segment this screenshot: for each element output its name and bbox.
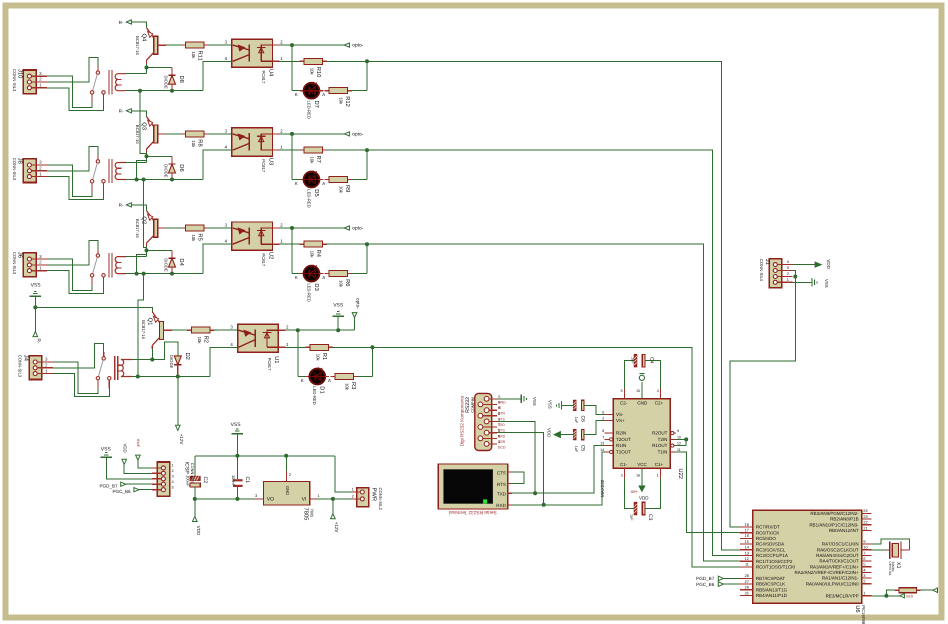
power terminal VDD (regulator output) xyxy=(193,499,201,536)
wire 7805 GND pin to rail xyxy=(285,456,287,472)
diode D6 DIODE (flyback) xyxy=(163,156,185,179)
node output junction / wire to R3 xyxy=(332,345,374,376)
svg-text:15: 15 xyxy=(745,540,749,544)
svg-text:TXD: TXD xyxy=(498,423,506,427)
svg-text:22: 22 xyxy=(863,521,867,525)
svg-text:RB5/AN13/T1G: RB5/AN13/T1G xyxy=(756,587,788,592)
svg-text:1uF: 1uF xyxy=(631,357,635,364)
svg-text:PGD_B7: PGD_B7 xyxy=(696,576,715,581)
svg-text:RB0/AN12/INT: RB0/AN12/INT xyxy=(829,528,859,533)
power terminal VDD (MCLR pullup) xyxy=(933,588,938,593)
svg-text:VDD: VDD xyxy=(196,526,201,536)
crystal X1 xyxy=(872,539,910,576)
power terminal +12V xyxy=(176,425,184,444)
node T2IN/R1OUT junction xyxy=(676,437,688,445)
connector J6 CONN-SIL3 xyxy=(12,252,47,277)
wire U4 pin1 to R10 xyxy=(273,56,300,62)
svg-text:23: 23 xyxy=(863,515,867,519)
svg-text:25: 25 xyxy=(745,591,749,595)
voltage regulator U7 7805 xyxy=(255,471,320,520)
svg-text:DIODE: DIODE xyxy=(163,76,168,89)
svg-text:PIC16F886: PIC16F886 xyxy=(861,605,866,624)
wire U3 pin2 to opto- net xyxy=(273,128,345,136)
svg-text:4: 4 xyxy=(787,260,789,264)
svg-text:10k: 10k xyxy=(310,251,315,259)
capacitor C3 1uF xyxy=(624,478,660,521)
node rail junction at flyback diode xyxy=(170,89,174,93)
svg-text:CONN-SIL3: CONN-SIL3 xyxy=(18,355,23,378)
power symbol (MAX232 GND pin15) xyxy=(639,373,644,398)
svg-text:3: 3 xyxy=(621,473,623,477)
svg-text:mclr: mclr xyxy=(906,593,914,598)
svg-text:2: 2 xyxy=(172,469,174,473)
svg-text:RC2/CCP1/P1A: RC2/CCP1/P1A xyxy=(756,553,788,558)
svg-text:PC817: PC817 xyxy=(261,159,266,172)
svg-text:Q4: Q4 xyxy=(141,34,148,43)
svg-text:100uF: 100uF xyxy=(186,475,191,487)
svg-text:GND: GND xyxy=(498,400,506,404)
svg-text:A: A xyxy=(322,92,325,97)
svg-text:RA2/AN2/VREF-/CVREF/C2IN+: RA2/AN2/VREF-/CVREF/C2IN+ xyxy=(794,570,859,575)
svg-text:28: 28 xyxy=(745,574,749,578)
svg-text:24: 24 xyxy=(863,509,867,513)
svg-text:VS+: VS+ xyxy=(616,418,625,423)
wire Q2 collector to R5 xyxy=(166,227,181,229)
svg-text:RA5/AN4/SS/C2OUT: RA5/AN4/SS/C2OUT xyxy=(816,553,859,558)
svg-text:TXD: TXD xyxy=(497,491,507,496)
node MCLR junction xyxy=(872,594,889,598)
svg-text:5: 5 xyxy=(172,485,174,489)
svg-text:LED-RED: LED-RED xyxy=(306,189,311,207)
svg-text:BC817-16: BC817-16 xyxy=(141,320,146,340)
svg-text:10k: 10k xyxy=(344,383,349,391)
wire relay bottom rail xyxy=(126,90,203,92)
svg-text:K: K xyxy=(295,181,298,186)
svg-text:VSS: VSS xyxy=(31,282,42,288)
optocoupler U3 PC817 xyxy=(232,128,274,173)
svg-text:PC817: PC817 xyxy=(261,253,266,266)
wire U4 pin4 to relay rail xyxy=(203,56,232,91)
wire Q3 collector to R8 xyxy=(166,133,181,135)
svg-text:2: 2 xyxy=(863,580,865,584)
svg-text:1: 1 xyxy=(787,278,789,282)
power symbol VSS (relay driver common) xyxy=(30,282,42,307)
svg-text:6: 6 xyxy=(863,557,865,561)
svg-text:VO: VO xyxy=(267,497,274,503)
wire TXD net to MAX232 R1IN xyxy=(508,446,605,496)
node C2 bottom junction xyxy=(193,497,197,501)
svg-text:C2+: C2+ xyxy=(655,401,664,406)
relay coil RL3 xyxy=(109,159,126,183)
svg-text:DIODE: DIODE xyxy=(163,164,168,177)
svg-text:18: 18 xyxy=(745,523,749,527)
wire coil top lead xyxy=(126,73,147,75)
svg-text:3: 3 xyxy=(255,493,257,498)
wire J10 pin3 to switch contact xyxy=(47,76,92,107)
svg-text:D7: D7 xyxy=(313,101,319,108)
resistor R10 10k xyxy=(300,58,328,77)
wire U1 pin2 to opto- net xyxy=(278,325,354,333)
resistor R3 10k xyxy=(330,374,358,391)
svg-text:opto-: opto- xyxy=(352,226,363,232)
svg-text:10k: 10k xyxy=(339,97,344,105)
svg-text:5: 5 xyxy=(621,389,623,393)
svg-text:X1: X1 xyxy=(895,562,901,569)
transistor Q1 BC817-16 xyxy=(141,312,172,349)
svg-text:5: 5 xyxy=(498,395,500,399)
svg-text:1: 1 xyxy=(317,493,319,498)
node output junction / wire to R6 xyxy=(327,242,370,273)
svg-text:VDD: VDD xyxy=(546,428,551,437)
svg-text:7: 7 xyxy=(863,551,865,555)
node VSS junction xyxy=(33,305,37,309)
svg-text:D5: D5 xyxy=(313,189,319,196)
wire 7805 VI to PWR / +12V node xyxy=(317,497,352,501)
output terminal opto- xyxy=(352,298,360,330)
wire U2 pin4 to relay rail xyxy=(203,239,232,274)
wire relay rail chain B-C xyxy=(135,178,147,276)
svg-text:RC4/SDI/SDA: RC4/SDI/SDA xyxy=(756,542,784,547)
svg-text:C2: C2 xyxy=(202,477,208,484)
svg-text:11: 11 xyxy=(745,563,749,567)
power terminal VDD (MAX232 VCC) xyxy=(631,468,650,500)
svg-text:T1OUT: T1OUT xyxy=(616,450,631,455)
wire J6 pin1 to switch contact xyxy=(47,271,104,294)
LED D3 LED-RED xyxy=(295,265,325,302)
wire U3 pin1 to R7 xyxy=(273,145,300,151)
svg-text:17: 17 xyxy=(745,529,749,533)
wire J4 pin1 to switch contact xyxy=(53,374,110,397)
svg-text:C3: C3 xyxy=(647,514,653,521)
optocoupler U4 PC817 xyxy=(232,39,273,84)
node Q2 emitter junction xyxy=(145,247,173,257)
diode D4 DIODE (flyback) xyxy=(163,250,184,273)
svg-text:4: 4 xyxy=(863,568,865,572)
input terminal R- (Q1 base) xyxy=(33,307,41,343)
virtual instrument Serial RS232 Terminal xyxy=(438,464,507,515)
svg-text:7: 7 xyxy=(602,435,604,439)
svg-text:D3: D3 xyxy=(313,283,320,290)
svg-text:Q1: Q1 xyxy=(147,318,154,326)
input terminal R- (Q4 base) xyxy=(119,20,132,25)
svg-text:100nF: 100nF xyxy=(231,475,236,487)
svg-text:K: K xyxy=(295,92,298,97)
transistor Q2 BC817-16 xyxy=(135,211,166,247)
svg-text:opto-: opto- xyxy=(352,43,363,49)
relay switch SW1 xyxy=(96,352,111,389)
wire U2 pin2 to opto- net xyxy=(273,223,345,231)
connector ICSP CONN-SIL5 xyxy=(152,462,195,497)
svg-text:R-: R- xyxy=(119,20,124,25)
svg-text:COMPIM: COMPIM xyxy=(471,397,475,413)
svg-text:C4: C4 xyxy=(649,357,655,364)
wire opto B net to PIC RC2 (pin 13) xyxy=(367,150,753,555)
input terminal R- (Q2 base) xyxy=(119,203,132,208)
svg-text:C1: C1 xyxy=(244,477,250,484)
svg-text:16: 16 xyxy=(745,534,749,538)
resistor R5 10k xyxy=(181,225,209,242)
connector J8 CONN-SIL3 xyxy=(12,158,47,183)
wire opto A net to PIC RC3 (pin 14) xyxy=(367,61,753,550)
wire relay bottom rail xyxy=(126,273,203,275)
svg-text:CONN-SIL3: CONN-SIL3 xyxy=(12,158,17,181)
wire R11 to U4 pin3 xyxy=(208,40,232,46)
wire DB9 pin3 to TXD net xyxy=(497,421,535,493)
svg-text:26: 26 xyxy=(745,586,749,590)
power symbol VSS (opto- pulldown) xyxy=(332,302,344,330)
svg-text:VI: VI xyxy=(302,497,307,503)
svg-text:R12: R12 xyxy=(344,96,351,107)
wire opto C net to PIC RC1 (pin 12) xyxy=(367,244,753,561)
svg-text:3: 3 xyxy=(787,266,789,270)
input terminal PGC_B6 (ICSP pin5) xyxy=(112,488,151,494)
svg-text:BC817-16: BC817-16 xyxy=(135,125,140,145)
svg-text:RA7/OSC1/CLKIN: RA7/OSC1/CLKIN xyxy=(822,542,859,547)
wire Q4 collector to R11 xyxy=(166,44,181,46)
svg-text:VSS: VSS xyxy=(231,422,242,428)
svg-text:VSS: VSS xyxy=(333,302,344,308)
wire relay bottom rail xyxy=(132,376,210,378)
svg-text:13: 13 xyxy=(745,551,749,555)
node rail junction at flyback diode xyxy=(170,272,174,276)
svg-text:10k: 10k xyxy=(315,354,320,362)
svg-text:RC0/T1OSO/T1CKI: RC0/T1OSO/T1CKI xyxy=(756,565,796,570)
svg-text:2: 2 xyxy=(787,272,789,276)
svg-text:10: 10 xyxy=(677,435,681,439)
node Q3 emitter junction xyxy=(145,153,173,163)
connector PWR CONN-SIL2 xyxy=(351,486,383,510)
svg-text:RB1/AN10/P1C/C12IN3-: RB1/AN10/P1C/C12IN3- xyxy=(809,522,859,527)
wire J8 pin1 to switch contact xyxy=(47,177,104,200)
svg-text:RE3/MCLR/VPP: RE3/MCLR/VPP xyxy=(826,593,859,598)
svg-text:RA1/AN1/C12IN1-: RA1/AN1/C12IN1- xyxy=(822,576,859,581)
wire T1IN to PIC RC6/TX (pin 17) xyxy=(676,452,753,533)
wire U1 pin1 to R1 xyxy=(278,342,305,348)
svg-text:U4: U4 xyxy=(267,69,273,77)
wire R- to Q3 xyxy=(131,111,146,117)
node rail junction at flyback diode xyxy=(170,178,174,182)
input terminal PGD_B7 (to PIC RB7) xyxy=(696,576,740,581)
svg-text:5: 5 xyxy=(863,563,865,567)
svg-text:VSS: VSS xyxy=(101,447,112,453)
wire R- to Q2 xyxy=(131,205,146,211)
connector J2 DB9 COMPIM xyxy=(460,393,506,450)
svg-text:U2: U2 xyxy=(267,252,274,259)
connector J1 CONN-SIL4 xyxy=(759,259,793,288)
node rail junctions xyxy=(136,375,180,379)
svg-text:VDD: VDD xyxy=(826,259,831,269)
svg-text:R-: R- xyxy=(119,109,124,114)
svg-text:RA6/OSC2/CLKOUT: RA6/OSC2/CLKOUT xyxy=(817,547,859,552)
wire R8 to U3 pin3 xyxy=(208,128,232,134)
svg-text:A: A xyxy=(322,181,325,186)
capacitor C4 1uF xyxy=(624,354,660,388)
capacitor C1 100nF xyxy=(231,456,250,499)
relay switch SW4 xyxy=(90,66,105,103)
svg-text:D2: D2 xyxy=(184,353,191,360)
svg-text:11: 11 xyxy=(677,448,681,452)
svg-text:13: 13 xyxy=(600,442,604,446)
svg-text:1: 1 xyxy=(863,592,865,596)
wire J8 pin2 to switch common xyxy=(47,147,98,171)
wire J4 pin2 to switch common xyxy=(53,344,104,368)
microcontroller U6 PIC16F886 xyxy=(740,509,871,624)
resistor R9 10k xyxy=(325,177,353,194)
svg-text:RA3/AN3/VREF+/C1IN+: RA3/AN3/VREF+/C1IN+ xyxy=(810,564,859,569)
transistor Q4 BC817-16 xyxy=(135,28,166,64)
svg-text:PGC_B6: PGC_B6 xyxy=(112,489,131,494)
node Q4 emitter junction xyxy=(145,64,173,74)
wire rail to PWR pin1 xyxy=(335,456,351,492)
wire opto D net to PIC RC0 (pin 11) xyxy=(372,347,752,567)
svg-text:10k: 10k xyxy=(339,186,344,194)
svg-text:GND: GND xyxy=(285,486,290,496)
svg-text:1uF: 1uF xyxy=(630,514,634,521)
svg-text:R1OUT: R1OUT xyxy=(652,443,668,448)
svg-text:VDD: VDD xyxy=(639,496,649,501)
svg-text:C5: C5 xyxy=(579,445,585,452)
wire relay rail chain A-B xyxy=(135,89,147,182)
svg-text:LED-RED: LED-RED xyxy=(306,101,311,119)
power symbol VSS (DB9 pin5) xyxy=(497,395,537,406)
input terminal PGC_B6 (to PIC RB6) xyxy=(696,582,740,587)
wire R2 to U1 pin3 xyxy=(214,325,238,331)
input terminal R- (Q3 base) xyxy=(119,109,132,114)
capacitor C2 100uF xyxy=(186,456,208,499)
svg-text:Digi RS232 Komponento: Digi RS232 Komponento xyxy=(460,395,465,446)
LED D1 LED-RED xyxy=(301,367,331,404)
svg-text:VSS: VSS xyxy=(547,400,552,409)
svg-text:A: A xyxy=(328,378,331,383)
diode D8 DIODE (flyback) xyxy=(163,68,185,91)
capacitor C6 1uF xyxy=(561,400,604,424)
wire J10 pin1 to switch contact xyxy=(47,88,104,111)
svg-text:LED-RED: LED-RED xyxy=(312,386,317,404)
svg-text:C6: C6 xyxy=(579,416,585,423)
node J1 pins 2-3 join xyxy=(792,271,797,279)
svg-text:20MHz: 20MHz xyxy=(891,562,895,573)
resistor R8 10k xyxy=(181,131,209,148)
wire pin2 node down to LED D1 xyxy=(298,330,306,376)
svg-text:R5: R5 xyxy=(197,233,203,240)
svg-text:R6: R6 xyxy=(344,279,351,286)
svg-text:R7: R7 xyxy=(315,156,321,163)
svg-text:C2-: C2- xyxy=(620,401,628,406)
svg-text:10k: 10k xyxy=(197,337,202,345)
svg-text:D8: D8 xyxy=(178,76,185,83)
svg-text:CONN-SIL5: CONN-SIL5 xyxy=(190,463,195,484)
wire emitter junction to D2 xyxy=(152,342,178,359)
svg-text:12: 12 xyxy=(677,442,681,446)
svg-text:1: 1 xyxy=(172,464,174,468)
svg-text:10k: 10k xyxy=(310,157,315,165)
svg-text:2: 2 xyxy=(602,417,604,421)
svg-text:T2OUT: T2OUT xyxy=(616,437,631,442)
power terminal VDD (ICSP pin2) xyxy=(122,444,152,474)
svg-text:Q2: Q2 xyxy=(141,216,148,224)
svg-text:1: 1 xyxy=(657,473,659,477)
wire pin2 node down to LED D7 xyxy=(292,45,300,91)
svg-text:10: 10 xyxy=(863,546,867,550)
svg-text:R10: R10 xyxy=(315,67,322,78)
input terminal mclr (ICSP pin1) xyxy=(136,439,152,468)
svg-text:RTS: RTS xyxy=(498,429,506,433)
svg-text:CTS: CTS xyxy=(497,470,506,475)
wire Q1 collector to R2 xyxy=(172,329,187,331)
svg-text:U6: U6 xyxy=(854,605,861,612)
resistor R11 10k xyxy=(181,42,209,61)
svg-text:T2IN: T2IN xyxy=(658,437,668,442)
resistor R2 10k xyxy=(187,327,215,344)
svg-text:R3: R3 xyxy=(350,382,357,389)
svg-text:CONN-SIL2: CONN-SIL2 xyxy=(378,488,383,511)
svg-text:RC6/TX/CK: RC6/TX/CK xyxy=(756,530,780,535)
svg-text:1: 1 xyxy=(352,486,354,491)
svg-text:R4: R4 xyxy=(315,250,321,258)
output terminal opto- xyxy=(344,43,363,49)
svg-text:A9+: A9+ xyxy=(631,489,639,494)
svg-text:R9: R9 xyxy=(344,185,351,192)
svg-text:VDD: VDD xyxy=(123,444,128,453)
svg-text:10k: 10k xyxy=(339,280,344,288)
svg-text:+12V: +12V xyxy=(334,522,339,533)
svg-text:10k: 10k xyxy=(310,68,315,76)
power terminal +12V (input) xyxy=(331,499,339,533)
svg-text:9: 9 xyxy=(677,429,679,433)
svg-text:R11: R11 xyxy=(197,51,203,61)
wire J1 to PIC RC7/RX (pin 18) xyxy=(730,277,795,528)
node output junction / wire to R9 xyxy=(327,148,370,179)
svg-text:RB4/AN11/P1D: RB4/AN11/P1D xyxy=(756,593,788,598)
svg-text:6: 6 xyxy=(602,410,604,414)
wire RXD net to MAX232 T1OUT xyxy=(508,452,605,507)
wire J10 pin2 to switch common xyxy=(47,58,98,82)
svg-text:RB2/AN8/P1B: RB2/AN8/P1B xyxy=(830,517,859,522)
relay switch SW2 xyxy=(90,249,105,286)
svg-text:PWR: PWR xyxy=(371,488,377,502)
svg-text:R2: R2 xyxy=(202,336,209,343)
svg-text:CTS: CTS xyxy=(498,417,506,421)
svg-text:K: K xyxy=(295,275,298,280)
svg-text:BC817-16: BC817-16 xyxy=(135,36,140,56)
power terminal VDD (J1 pin4) xyxy=(792,259,831,269)
resistor R1 10k xyxy=(305,344,333,361)
svg-text:15: 15 xyxy=(636,389,640,393)
svg-text:21: 21 xyxy=(863,526,867,530)
svg-text:DTR: DTR xyxy=(498,412,506,416)
svg-text:3: 3 xyxy=(172,474,174,478)
svg-text:3: 3 xyxy=(863,574,865,578)
svg-text:opto-: opto- xyxy=(352,131,363,137)
svg-text:CONN-SIL3: CONN-SIL3 xyxy=(12,69,17,92)
resistor R6 10k xyxy=(325,271,353,288)
svg-text:D4: D4 xyxy=(178,258,184,266)
svg-text:DIODE: DIODE xyxy=(169,355,174,368)
capacitor C5 1uF xyxy=(560,421,604,453)
svg-text:7805: 7805 xyxy=(302,508,309,521)
resistor R12 10k xyxy=(325,88,353,107)
optocoupler U2 PC817 xyxy=(232,222,274,267)
wire J8 pin3 to switch contact xyxy=(47,165,92,196)
svg-text:RA4/T0CKI/C1OUT: RA4/T0CKI/C1OUT xyxy=(819,559,859,564)
input terminal PGD_B7 (ICSP pin4) xyxy=(99,482,151,488)
LED D5 LED-RED xyxy=(295,171,325,208)
transistor Q3 BC817-16 xyxy=(135,117,166,153)
svg-text:LED-RED: LED-RED xyxy=(306,283,311,301)
svg-text:DCD: DCD xyxy=(498,446,506,450)
wire U3 pin4 to relay rail xyxy=(203,145,232,180)
svg-text:VSS: VSS xyxy=(824,279,829,288)
